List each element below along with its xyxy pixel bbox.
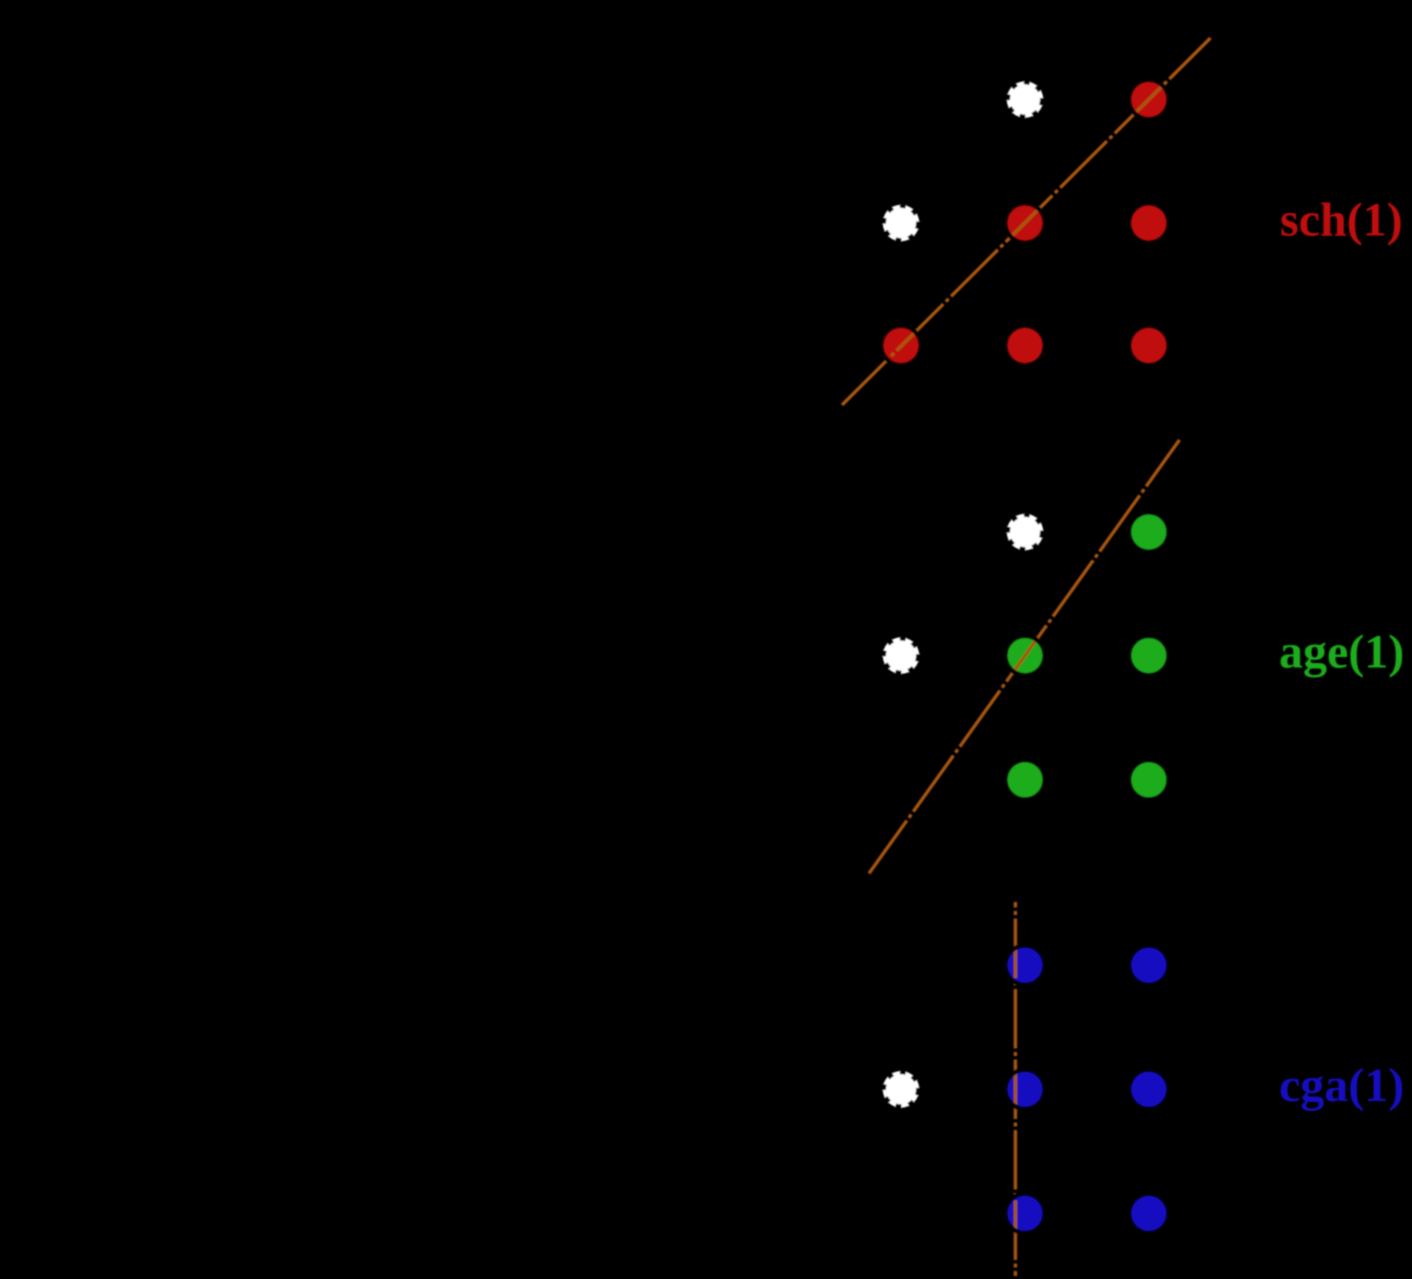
svg-text:age(1): age(1) [1279,626,1404,679]
svg-text:sch(1): sch(1) [1280,194,1403,247]
svg-text:cga(1): cga(1) [1279,1059,1404,1112]
